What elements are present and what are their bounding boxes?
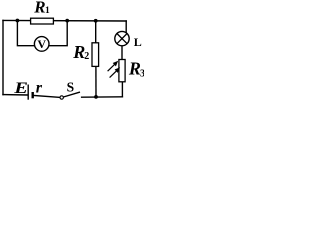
- svg-text:R: R: [33, 0, 45, 17]
- svg-text:V: V: [37, 37, 46, 51]
- wire top horizontal: [3, 19, 126, 22]
- wire bottom-right vertical to R3: [121, 82, 123, 97]
- wire R3 top stub to lamp: [121, 46, 123, 60]
- svg-text:S: S: [67, 80, 75, 95]
- wire left vertical: [2, 20, 4, 94]
- resistor R2: [92, 43, 99, 67]
- node junction dot top-middle: [65, 19, 69, 23]
- photoresistor R3 light arrow 1: [108, 61, 121, 78]
- svg-text:L: L: [134, 35, 142, 49]
- node junction dot bottom R2: [94, 95, 98, 99]
- resistor R1: [31, 18, 54, 24]
- lamp L cross: [117, 34, 127, 44]
- svg-text:r: r: [36, 79, 43, 96]
- wire battery to switch: [34, 96, 60, 98]
- wire bottom left to battery: [3, 94, 27, 96]
- svg-text:2: 2: [84, 51, 89, 62]
- lamp L circle: [115, 31, 129, 45]
- svg-text:E: E: [13, 79, 28, 96]
- battery cell long plate: [27, 85, 29, 100]
- switch S lever: [63, 92, 80, 97]
- wire R2 bottom stub: [95, 66, 97, 97]
- svg-text:1: 1: [45, 6, 50, 16]
- battery cell short plate: [32, 92, 34, 98]
- wire voltmeter loop right: [49, 21, 67, 46]
- wire voltmeter loop left: [17, 21, 34, 46]
- photoresistor R3: [119, 60, 125, 82]
- switch S pivot circle: [60, 96, 63, 99]
- node junction dot top-left: [16, 19, 20, 23]
- node junction dot top R2: [94, 19, 98, 23]
- wire R2 top stub: [95, 21, 97, 43]
- voltmeter U1 circle: [34, 37, 49, 52]
- photoresistor R3 light arrow 2: [110, 69, 119, 78]
- wire lamp top stub from top-right corner: [125, 21, 127, 33]
- wire switch to bottom-right corner: [82, 96, 123, 98]
- svg-text:R: R: [128, 59, 141, 79]
- svg-text:3: 3: [140, 68, 144, 79]
